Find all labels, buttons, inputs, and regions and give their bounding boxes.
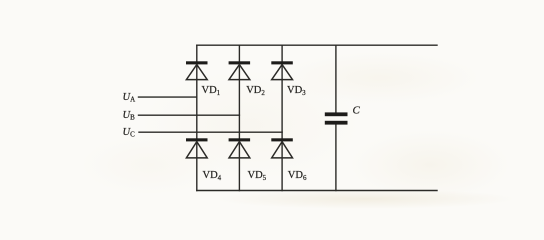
wire top rail (+) <box>197 44 437 46</box>
diode VD4 <box>186 138 208 158</box>
wire bottom rail (-) <box>197 190 437 192</box>
wire capacitor leg lower <box>335 125 337 191</box>
wire input B <box>139 114 240 116</box>
wire input A <box>139 96 197 98</box>
wire capacitor leg upper <box>335 45 337 112</box>
diode VD1 <box>186 61 208 79</box>
wire branch 1 (VD1/VD4 leg) <box>196 45 198 190</box>
wire input C <box>139 131 282 133</box>
svg-text:C: C <box>353 105 361 117</box>
diode VD3 <box>271 61 293 79</box>
diode VD2 <box>229 61 251 79</box>
wire branch 2 (VD2/VD5 leg) <box>238 45 240 190</box>
diode VD6 <box>271 138 293 158</box>
capacitor C plates <box>325 112 348 124</box>
wire branch 3 (VD3/VD6 leg) <box>281 45 283 190</box>
diode VD5 <box>229 138 251 158</box>
